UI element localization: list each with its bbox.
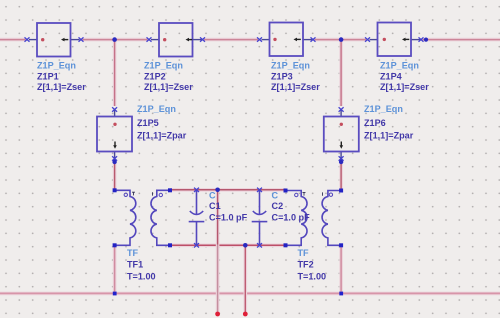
svg-text:Z1P_Eqn: Z1P_Eqn (144, 60, 183, 70)
svg-text:Z[1,1]=Zser: Z[1,1]=Zser (144, 82, 193, 92)
transformer TF2 (284, 189, 344, 248)
node: junction of net and Z1P6 branch (339, 37, 344, 42)
Z1P_Eqn block Z1P4 (365, 23, 424, 57)
svg-text:TF: TF (127, 248, 139, 258)
label Z1P3 (271, 60, 320, 92)
Z1P_Eqn block Z1P1 (25, 23, 84, 57)
svg-text:TF1: TF1 (127, 260, 143, 270)
open wire end dot (left output) (215, 312, 220, 317)
node: wire vertex right of Z1P4 (424, 38, 428, 42)
label TF2 (298, 248, 327, 282)
node: wire vertex below Z1P5 (112, 160, 116, 164)
svg-text:C=1.0 pF: C=1.0 pF (272, 213, 311, 223)
svg-text:Z1P_Eqn: Z1P_Eqn (380, 60, 419, 70)
node: junction of TF1 branch and ground rail (113, 292, 117, 296)
wire: vertical wire from Z1P5 down to TF1 primary (113, 162, 117, 190)
svg-text:Z[1,1]=Zpar: Z[1,1]=Zpar (137, 130, 187, 140)
svg-text:T=1.00: T=1.00 (298, 272, 327, 282)
transformer TF1 (113, 188, 172, 247)
wire: top rail TF1 secondary to TF2 primary (C1 C2 tops) (170, 188, 286, 192)
wire: vertical shunt wire from top net down to Z1P5 (113, 40, 117, 106)
svg-text:Z1P_Eqn: Z1P_Eqn (364, 104, 403, 114)
label Z1P2 (144, 60, 193, 92)
node: junction of top rail and output stub (215, 188, 220, 193)
svg-text:Z1P2: Z1P2 (144, 71, 166, 81)
Z1P_Eqn block Z1P3 (257, 23, 316, 57)
node: junction of input net and Z1P5 branch (112, 37, 117, 42)
svg-text:Z1P4: Z1P4 (380, 71, 403, 81)
wire: vertical wire from Z1P6 down to TF2 secondary (339, 162, 343, 190)
Z1P_Eqn block Z1P6 (shunt) (324, 107, 359, 160)
node: junction of TF2 branch and ground rail (339, 292, 343, 296)
svg-text:TF: TF (298, 248, 310, 258)
wire: input net segment entering from left edge (0, 38, 26, 42)
wire: long bottom ground rail across full width (0, 292, 500, 296)
label TF1 (127, 248, 156, 282)
wire: output stub from bottom rail down to open end (244, 247, 248, 313)
wire: net between Z1P2 and Z1P3 (204, 38, 258, 42)
wire: output net exiting right edge (423, 38, 500, 42)
label Z1P1 (37, 60, 86, 92)
Z1P_Eqn block Z1P5 (shunt) (97, 107, 132, 160)
label C2 (272, 190, 311, 222)
capacitor C1 (189, 188, 205, 248)
svg-text:Z[1,1]=Zser: Z[1,1]=Zser (37, 82, 86, 92)
node: junction of bottom rail and output stub (243, 243, 248, 248)
label C1 (209, 190, 248, 222)
svg-text:Z1P_Eqn: Z1P_Eqn (37, 60, 76, 70)
wire: output stub from top rail down to open end (216, 191, 220, 313)
label Z1P6 (364, 104, 414, 141)
wire: vertical shunt wire from top net down to Z1P6 (339, 40, 343, 106)
svg-text:C: C (209, 190, 216, 200)
svg-text:Z1P3: Z1P3 (271, 71, 293, 81)
capacitor C2 (252, 188, 268, 248)
open wire end dot (right output) (243, 312, 248, 317)
svg-text:C2: C2 (272, 201, 284, 211)
wire: net between Z1P3 and Z1P4 (315, 38, 367, 42)
svg-text:T=1.00: T=1.00 (127, 272, 156, 282)
svg-text:Z[1,1]=Zpar: Z[1,1]=Zpar (364, 130, 414, 140)
svg-text:C: C (272, 190, 279, 200)
wire: net between Z1P1 and Z1P2 (83, 38, 148, 42)
svg-text:Z[1,1]=Zser: Z[1,1]=Zser (271, 82, 320, 92)
label Z1P4 (380, 60, 429, 92)
wire: bottom rail TF1 secondary to TF2 primary (C1 C2 bottoms) (170, 244, 286, 248)
svg-text:Z1P6: Z1P6 (364, 118, 386, 128)
node: wire vertex below Z1P6 (339, 160, 343, 164)
wire: TF2 secondary bottom down to ground rail (339, 246, 343, 293)
wire: TF1 primary bottom down to ground rail (113, 246, 117, 293)
svg-text:Z1P1: Z1P1 (37, 71, 59, 81)
svg-text:Z1P_Eqn: Z1P_Eqn (137, 104, 176, 114)
label Z1P5 (137, 104, 187, 141)
Z1P_Eqn block Z1P2 (147, 23, 206, 57)
svg-text:Z1P_Eqn: Z1P_Eqn (271, 60, 310, 70)
svg-text:C=1.0 pF: C=1.0 pF (209, 213, 248, 223)
svg-text:TF2: TF2 (298, 260, 314, 270)
svg-text:Z1P5: Z1P5 (137, 118, 159, 128)
svg-text:C1: C1 (209, 201, 221, 211)
svg-text:Z[1,1]=Zser: Z[1,1]=Zser (380, 82, 429, 92)
